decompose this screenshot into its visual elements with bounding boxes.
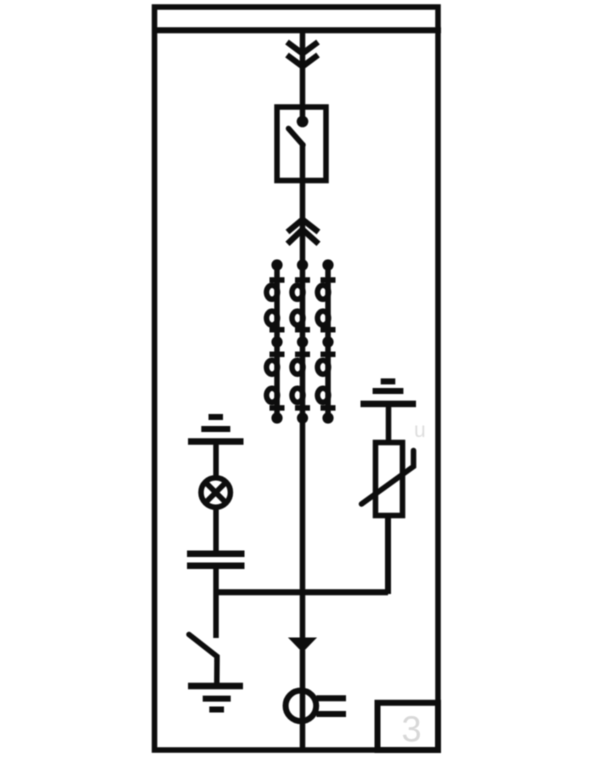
wire: lamp to capacitor — [213, 506, 219, 552]
svg-text:u: u — [414, 419, 426, 442]
wire: capacitor down to earthing switch — [213, 566, 219, 638]
earth / ground symbol — [188, 686, 243, 710]
plug prongs — [317, 698, 347, 714]
wire: breaker to CT block — [300, 143, 306, 266]
wire: tap to arrester body — [386, 404, 392, 444]
wire: arrester down and left to tie — [385, 516, 391, 595]
breaker fixed contact dot — [297, 116, 309, 128]
corner label box — [378, 703, 439, 750]
svg-text:3: 3 — [401, 709, 421, 750]
cable test plug circle — [286, 691, 317, 722]
earthing switch blade — [189, 635, 217, 685]
wire: main incoming riser from busbar to breaker — [300, 33, 306, 119]
wire: tap to indicator lamp — [213, 442, 219, 479]
breaker switch blade — [289, 129, 304, 146]
withdrawable contact upper (double chevron down) — [287, 42, 318, 67]
indicator lamp (circle with cross) — [201, 478, 230, 507]
current transformer phase L3 — [318, 259, 336, 423]
capacitor (voltage divider) — [187, 554, 245, 566]
current transformer phase L2 — [292, 259, 310, 423]
wire: CT down to cable termination — [300, 418, 306, 640]
busbar compartment line — [152, 27, 441, 33]
varistor diagonal with foot — [362, 451, 414, 505]
wire: horizontal tie between branches — [214, 589, 389, 595]
circuit breaker box — [277, 107, 326, 181]
voltage detection tap (inverted earth) on left branch — [188, 417, 244, 442]
surge arrester (varistor) body F1 — [376, 443, 403, 516]
withdrawable contact lower (double chevron up) — [288, 220, 319, 244]
current transformer phase L1 — [267, 259, 285, 423]
panel enclosure frame — [155, 7, 439, 750]
cable arrow head (outgoing feeder) — [288, 638, 317, 653]
surge arrester tap (inverted earth) on right branch — [361, 381, 417, 404]
wire: through cable plug to bottom — [300, 650, 306, 750]
